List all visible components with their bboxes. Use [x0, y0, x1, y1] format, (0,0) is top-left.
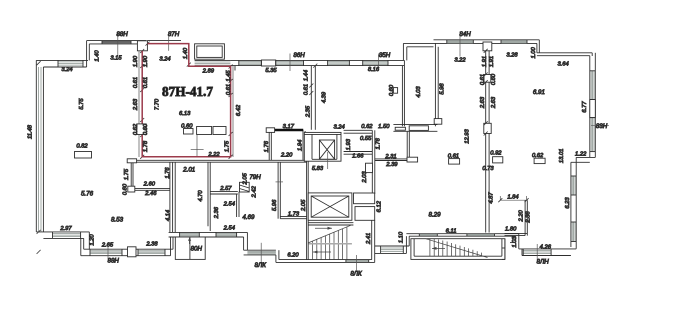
wall stub at window edge [234, 66, 236, 71]
center stairs upper flight [308, 225, 352, 243]
svg-text:8.29: 8.29 [428, 212, 441, 219]
pier on east wall [590, 100, 596, 118]
svg-text:3.17: 3.17 [283, 124, 295, 130]
corridor bottom wall C [169, 232, 248, 237]
wall between corridor and stairs y223 [308, 223, 353, 225]
vestibule 80Н box [175, 237, 205, 259]
bottom wall left section A [36, 232, 89, 239]
elevator car with X [319, 140, 334, 159]
svg-text:2.65: 2.65 [101, 242, 114, 248]
wall x408 (room 2.31 east) [407, 132, 418, 162]
junction box on red left wall [137, 124, 146, 135]
svg-text:5.75: 5.75 [79, 98, 85, 110]
svg-text:3.24: 3.24 [159, 56, 170, 62]
NE corner step [537, 40, 592, 56]
svg-text:0.60: 0.60 [491, 73, 497, 85]
svg-text:2.22: 2.22 [207, 152, 220, 158]
east wall upper windowed [590, 53, 596, 158]
svg-text:2.63: 2.63 [491, 96, 497, 109]
step down SW [81, 232, 90, 256]
svg-text:2.57: 2.57 [219, 186, 232, 192]
svg-text:1.45: 1.45 [226, 70, 232, 82]
svg-text:2.97: 2.97 [59, 226, 72, 232]
svg-text:6.20: 6.20 [287, 252, 299, 258]
wall 1.03 segment [510, 234, 519, 249]
corridor wall x436 (5.98) [434, 43, 442, 126]
svg-text:3.24: 3.24 [333, 125, 344, 131]
svg-text:4.70: 4.70 [198, 190, 204, 202]
leader 5.83 [327, 152, 329, 169]
column box on wall B [128, 247, 137, 257]
right stair diagonal and arrow [426, 239, 488, 258]
svg-text:0.61: 0.61 [226, 84, 232, 95]
svg-text:0.61: 0.61 [143, 77, 149, 88]
svg-text:2.36: 2.36 [214, 206, 220, 219]
svg-text:6.42: 6.42 [236, 104, 242, 116]
svg-text:1.75: 1.75 [225, 140, 231, 152]
wall top-left horizontal with window [36, 60, 88, 67]
flue rect 0.61 left [449, 159, 460, 165]
svg-text:12.93: 12.93 [465, 128, 471, 143]
rotated dims [28, 46, 589, 247]
svg-text:3.64: 3.64 [557, 62, 568, 68]
red unit 87Н outline [142, 44, 230, 157]
corridor bottom wall 1.73 [280, 217, 306, 219]
center stairs lower flight [313, 245, 347, 260]
right section SW wall G [406, 236, 409, 253]
right stair east notch [502, 239, 505, 260]
bay window (loggia) outer box [195, 44, 225, 59]
svg-text:2.63: 2.63 [480, 96, 486, 109]
svg-text:87Н: 87Н [168, 31, 180, 38]
svg-text:1.03: 1.03 [512, 236, 518, 248]
svg-text:2.63: 2.63 [133, 98, 139, 111]
bottom-right wall with window [519, 249, 576, 256]
bottom wall B recessed [81, 249, 173, 256]
room 2.20 walls (left of elevator) [269, 130, 305, 161]
svg-text:1.76: 1.76 [376, 137, 382, 149]
svg-text:79Н: 79Н [249, 174, 261, 181]
svg-text:2.54: 2.54 [223, 201, 235, 207]
svg-text:4.39: 4.39 [322, 91, 328, 103]
svg-text:1.40: 1.40 [183, 47, 189, 59]
svg-text:3.22: 3.22 [454, 58, 466, 64]
svg-text:4.14: 4.14 [166, 210, 172, 221]
svg-text:8.53: 8.53 [111, 217, 124, 224]
svg-text:2.03: 2.03 [362, 171, 368, 184]
wall right of red (grey inner line) [232, 66, 234, 157]
corridor wall x278 [276, 162, 284, 219]
niche bottom wall 2.46 [135, 189, 170, 191]
svg-text:0.60: 0.60 [143, 123, 149, 135]
79Н closet hatch [240, 182, 250, 192]
svg-text:1.50: 1.50 [378, 124, 390, 130]
svg-text:5.76: 5.76 [81, 191, 94, 198]
wall top red-room segment to bay [147, 40, 181, 42]
junction box at red corner [137, 41, 147, 51]
svg-text:80Н: 80Н [191, 246, 203, 253]
svg-text:5.98: 5.98 [440, 83, 446, 95]
svg-text:3.24: 3.24 [61, 67, 72, 73]
svg-text:11.48: 11.48 [28, 124, 34, 139]
right section top wall with windows 84Н [434, 40, 540, 44]
wall x373 with box [366, 130, 375, 194]
right stair top wall with windows [406, 234, 518, 237]
left outer wall (west, windowed) [36, 60, 43, 232]
svg-text:8ЛК: 8ЛК [350, 271, 362, 278]
room 2.01 walls [175, 162, 210, 232]
flue 0.60 rect [393, 88, 397, 94]
window end caps [53, 40, 596, 263]
svg-text:8ЛН: 8ЛН [537, 259, 550, 266]
svg-text:0.61: 0.61 [133, 77, 139, 88]
svg-text:6.77: 6.77 [582, 101, 588, 113]
svg-text:88Н: 88Н [116, 31, 128, 38]
svg-text:0.62: 0.62 [133, 123, 139, 135]
svg-text:86Н: 86Н [293, 52, 305, 59]
room 2.20/2.36 right section [500, 200, 527, 235]
svg-text:2.01: 2.01 [182, 166, 195, 173]
svg-text:6.13: 6.13 [179, 111, 191, 117]
wall 2.39 (room 2.31 bottom) [375, 159, 407, 161]
central wall x487 [484, 51, 503, 233]
big elevator shaft [308, 193, 352, 220]
step up to corridor wall [171, 237, 174, 256]
svg-text:2.20: 2.20 [280, 153, 293, 159]
svg-text:0.82: 0.82 [76, 144, 88, 150]
kitchen counters [184, 127, 227, 135]
svg-text:0.60: 0.60 [123, 183, 129, 195]
svg-text:2.38: 2.38 [145, 242, 158, 248]
svg-text:1.40: 1.40 [95, 50, 101, 62]
svg-text:0.61: 0.61 [448, 154, 459, 160]
svg-text:87Н-41.7: 87Н-41.7 [162, 84, 213, 99]
service rooms right of elevator [354, 193, 375, 220]
top wall of room 13.01/8.29 with niches [393, 125, 437, 132]
svg-text:6.23: 6.23 [565, 197, 571, 209]
svg-text:2.35: 2.35 [306, 105, 312, 118]
svg-text:1.93: 1.93 [346, 138, 352, 150]
middle section top wall [230, 60, 404, 65]
svg-text:2.89: 2.89 [202, 69, 215, 75]
svg-text:1.66: 1.66 [352, 154, 364, 160]
stair block bottom wall [276, 260, 375, 263]
flue rect 0.62 right [534, 158, 545, 163]
svg-text:6.11: 6.11 [446, 228, 457, 234]
svg-text:13.01: 13.01 [559, 149, 565, 164]
leaders top labels [118, 31, 609, 125]
svg-text:2.54: 2.54 [223, 226, 235, 232]
svg-text:2.05: 2.05 [301, 199, 307, 212]
junction box top (central wall) [483, 42, 492, 51]
east step at y157 [571, 157, 595, 162]
svg-text:2.39: 2.39 [385, 162, 398, 168]
svg-text:7.70: 7.70 [155, 98, 161, 110]
leaders 8ЛК bottom [108, 243, 537, 271]
svg-text:1.94: 1.94 [298, 140, 304, 151]
svg-text:1.91: 1.91 [489, 56, 495, 67]
svg-text:4.69: 4.69 [242, 214, 255, 221]
svg-text:85Н: 85Н [379, 52, 391, 59]
wall below red room (rooms top wall) [134, 160, 307, 162]
svg-text:1.00: 1.00 [531, 46, 537, 58]
svg-text:6.12: 6.12 [377, 200, 383, 212]
door hatch 8ЛК (west) [244, 250, 276, 255]
svg-text:84Н: 84Н [459, 31, 471, 38]
wall x170 (8.53 east) [170, 162, 173, 232]
wall interior x311 (room 4.39 west) [311, 66, 315, 130]
wall under red left (grey inner line) [138, 51, 140, 157]
cabinet 0.82 [75, 152, 92, 159]
niche walls 1.75/0.60 under red SW [127, 159, 136, 192]
svg-text:0.73: 0.73 [482, 166, 494, 172]
svg-text:2.36: 2.36 [526, 211, 532, 224]
svg-text:1.75: 1.75 [124, 168, 130, 180]
dim line red room kitchen [191, 135, 204, 157]
svg-text:4.87: 4.87 [489, 192, 495, 204]
svg-text:0.61: 0.61 [480, 74, 486, 85]
wall between mid and right sections x403 [402, 60, 404, 126]
svg-text:0.92: 0.92 [490, 151, 502, 157]
stair block east wall [372, 220, 375, 262]
svg-text:2.05: 2.05 [243, 172, 249, 185]
dim line 1.84 [500, 196, 526, 200]
svg-text:1.10: 1.10 [398, 231, 404, 243]
svg-text:88Н: 88Н [108, 257, 120, 264]
svg-text:1.22: 1.22 [575, 152, 587, 158]
svg-text:4.03: 4.03 [416, 86, 422, 98]
big elevator X [311, 196, 349, 217]
svg-text:1.80: 1.80 [505, 227, 517, 233]
svg-text:1.73: 1.73 [288, 212, 300, 218]
svg-text:1.90: 1.90 [133, 55, 139, 67]
svg-text:2.20: 2.20 [519, 209, 525, 222]
svg-text:1.90: 1.90 [143, 55, 149, 67]
right section west step wall [403, 43, 433, 60]
svg-text:2.31: 2.31 [384, 154, 396, 160]
right stair treads [430, 239, 482, 256]
svg-text:2.60: 2.60 [143, 181, 156, 187]
svg-text:5.83: 5.83 [312, 166, 324, 172]
svg-text:83Н: 83Н [596, 123, 608, 130]
wall 2.57 room [210, 192, 239, 217]
svg-text:0.60: 0.60 [181, 124, 193, 130]
svg-text:0.60: 0.60 [389, 84, 395, 96]
svg-text:2.46: 2.46 [144, 191, 157, 197]
window hatches on middle top wall [239, 62, 388, 65]
dimension tick slashes [37, 42, 529, 254]
landing line [308, 243, 352, 245]
svg-text:1.78: 1.78 [143, 140, 149, 152]
svg-text:0.62: 0.62 [532, 153, 544, 159]
right stairwell box [411, 239, 505, 260]
step down to 8ЛК door [244, 232, 248, 250]
wall step NW vertical [87, 41, 90, 67]
svg-text:8ЛК: 8ЛК [255, 262, 267, 269]
svg-text:2.42: 2.42 [252, 185, 258, 198]
stair block west wall lower [276, 250, 279, 262]
wall top of left section with window 88Н [87, 41, 146, 44]
svg-text:1.44: 1.44 [304, 70, 310, 81]
svg-text:1.20: 1.20 [89, 234, 95, 246]
svg-text:1.76: 1.76 [264, 140, 270, 152]
door lintel 3.17 [270, 129, 303, 132]
svg-text:1.84: 1.84 [507, 194, 518, 200]
svg-text:5.35: 5.35 [265, 68, 277, 74]
svg-text:2.41: 2.41 [366, 233, 372, 245]
svg-text:3.28: 3.28 [506, 53, 518, 59]
svg-text:1.76: 1.76 [165, 167, 171, 179]
svg-text:1.91: 1.91 [482, 56, 488, 67]
rooms right of shaft: walls y130/y151 [344, 130, 373, 154]
elevator shaft small [304, 132, 341, 161]
bridge walls to right section [375, 246, 410, 253]
svg-text:6.91: 6.91 [533, 89, 545, 96]
east wall lower windowed [571, 157, 576, 248]
svg-text:3.15: 3.15 [110, 56, 122, 62]
bay window glazing lines [195, 59, 231, 61]
svg-text:8.16: 8.16 [368, 67, 380, 73]
pier box on middle top wall [261, 60, 275, 66]
svg-text:0.62: 0.62 [361, 124, 373, 130]
svg-text:0.61: 0.61 [304, 84, 310, 95]
svg-text:4.26: 4.26 [540, 244, 552, 250]
svg-text:5.96: 5.96 [272, 199, 278, 211]
stair block west wall x307 [307, 161, 309, 259]
svg-text:0.55: 0.55 [360, 136, 372, 142]
